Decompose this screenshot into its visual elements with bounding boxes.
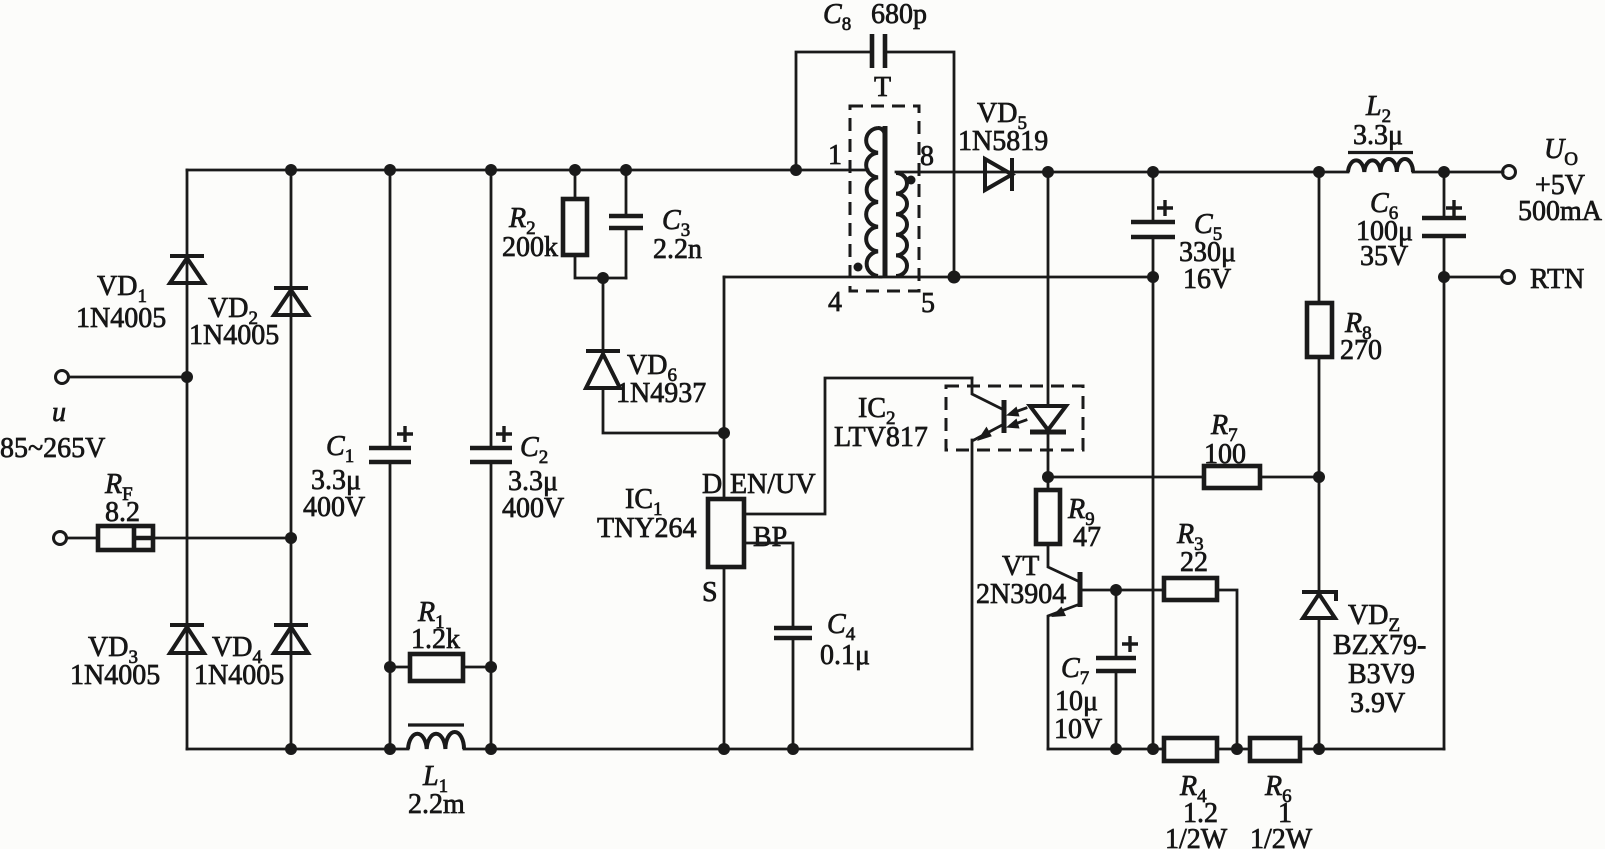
- wire VD2/VD4 column: [290, 170, 293, 749]
- svg-text:270: 270: [1340, 335, 1382, 366]
- wire primary bottom rail right of L1: [464, 748, 972, 751]
- wire IC1 BP lead: [744, 543, 793, 628]
- optocoupler light arrow upper: [1006, 407, 1026, 417]
- wire VDZ top lead: [1318, 477, 1321, 592]
- svg-text:VT: VT: [1002, 551, 1039, 582]
- wire C3 bottom lead: [625, 228, 628, 278]
- transformer T dashed outline: [850, 106, 919, 291]
- node VD5 out / LED branch: [1042, 166, 1054, 178]
- capacitor C4: [774, 628, 812, 638]
- wire VT base lead: [1082, 589, 1164, 592]
- node top rail C5: [1147, 166, 1159, 178]
- wire C7 bottom lead: [1115, 671, 1118, 749]
- wire C8 left branch: [796, 52, 872, 170]
- svg-text:RTN: RTN: [1530, 264, 1584, 295]
- transistor VT emitter: [1048, 604, 1080, 749]
- node top rail C2: [485, 164, 497, 176]
- svg-text:T: T: [874, 72, 891, 103]
- svg-text:2N3904: 2N3904: [976, 579, 1066, 610]
- wire R1 left lead: [390, 666, 410, 669]
- svg-text:1N4005: 1N4005: [70, 660, 160, 691]
- node bottom rail C7: [1110, 743, 1122, 755]
- resistor R3: [1164, 578, 1217, 600]
- transistor VT emitter arrow: [1051, 607, 1066, 618]
- svg-text:8: 8: [920, 141, 934, 172]
- svg-text:85~265V: 85~265V: [0, 433, 105, 464]
- wire optocoupler emitter: [974, 424, 1004, 440]
- wire R3 right to bottom rail: [1217, 590, 1237, 749]
- svg-text:16V: 16V: [1183, 264, 1231, 295]
- wire optocoupler collector: [972, 378, 1004, 410]
- svg-text:1N4005: 1N4005: [194, 660, 284, 691]
- svg-text:1.2k: 1.2k: [411, 624, 460, 655]
- svg-text:2.2m: 2.2m: [408, 789, 465, 820]
- node bottom rail C5: [1147, 743, 1159, 755]
- resistor RF fusible: [98, 526, 153, 550]
- svg-text:100: 100: [1204, 439, 1246, 470]
- svg-text:400V: 400V: [303, 492, 365, 523]
- wire IC1 EN/UV to optocoupler: [744, 378, 972, 514]
- optocoupler phototransistor bar: [1002, 400, 1007, 433]
- wire primary top rail: [187, 169, 868, 172]
- terminal AC input bottom: [54, 532, 67, 545]
- svg-text:D: D: [702, 469, 722, 500]
- node bottom rail IC1 S: [718, 743, 730, 755]
- wire R7 right lead: [1260, 476, 1319, 479]
- svg-text:1/2W: 1/2W: [1250, 824, 1313, 849]
- svg-text:BZX79-: BZX79-: [1333, 630, 1426, 661]
- capacitor C8: [872, 34, 885, 68]
- wire VD6 top lead: [602, 278, 605, 352]
- capacitor C5: [1131, 200, 1175, 237]
- node RF junction: [285, 532, 297, 544]
- wire optocoupler LED cathode: [1047, 432, 1050, 490]
- op-amp IC1 TNY264 body: [708, 499, 744, 567]
- wire VDZ bottom lead: [1318, 618, 1321, 749]
- wire R9 to VT collector: [1048, 544, 1078, 581]
- inductor L2: [1348, 153, 1413, 173]
- svg-text:3.9V: 3.9V: [1350, 688, 1405, 719]
- node pin5 rail C5: [1147, 271, 1159, 283]
- wire R8 bottom lead: [1318, 357, 1321, 477]
- svg-text:LTV817: LTV817: [834, 422, 928, 453]
- node bottom rail C4: [787, 743, 799, 755]
- diode VD3: [170, 625, 204, 653]
- wire C3 column top: [625, 170, 628, 216]
- svg-text:47: 47: [1073, 522, 1101, 553]
- wire IC1 S lead: [723, 567, 726, 749]
- transformer secondary phase dot: [907, 176, 916, 185]
- terminal RTN: [1502, 271, 1515, 284]
- svg-text:1N5819: 1N5819: [958, 126, 1048, 157]
- svg-text:8.2: 8.2: [105, 497, 140, 528]
- wire top rail L2 to output: [1413, 171, 1503, 174]
- node pin5 rail C6 RTN: [1438, 271, 1450, 283]
- transformer primary phase dot: [854, 263, 863, 272]
- wire primary bottom rail left of L1: [187, 748, 408, 751]
- wire C5 column top: [1152, 172, 1155, 222]
- wire C5 column down to ground rail: [1152, 237, 1155, 749]
- capacitor C3: [609, 216, 643, 228]
- wire drain column transformer pin4 to IC1 D: [723, 277, 726, 499]
- wire secondary top rail: [896, 171, 1348, 174]
- svg-text:22: 22: [1180, 547, 1208, 578]
- svg-text:5: 5: [921, 288, 935, 319]
- resistor R9: [1036, 490, 1060, 544]
- wire bottom rail R6 to C6: [1300, 748, 1444, 751]
- node C8 secondary junction: [948, 271, 961, 284]
- svg-text:S: S: [702, 577, 718, 608]
- svg-text:0.1μ: 0.1μ: [820, 640, 870, 671]
- node top rail C3: [620, 164, 632, 176]
- node bottom rail R3 branch: [1231, 743, 1243, 755]
- svg-text:TNY264: TNY264: [597, 513, 697, 544]
- svg-text:10V: 10V: [1054, 714, 1102, 745]
- wire C4 bottom lead: [792, 638, 795, 749]
- svg-text:1/2W: 1/2W: [1165, 824, 1228, 849]
- node R1 right: [485, 661, 497, 673]
- transistor VT base bar: [1078, 572, 1083, 607]
- transformer secondary winding: [896, 173, 907, 276]
- wire C8 right branch: [885, 52, 954, 277]
- svg-text:3.3μ: 3.3μ: [1353, 120, 1403, 151]
- terminal UO output: [1503, 166, 1516, 179]
- svg-text:1: 1: [828, 140, 842, 171]
- resistor R2: [563, 199, 587, 255]
- svg-text:10μ: 10μ: [1055, 686, 1098, 717]
- transformer core: [883, 126, 888, 276]
- wire C2 column top: [490, 170, 493, 448]
- diode VD6: [586, 351, 620, 388]
- capacitor C6: [1422, 200, 1466, 236]
- node top rail L2 R8: [1313, 166, 1325, 178]
- wire transformer pin 4 lead: [724, 276, 881, 279]
- node R7 R8 VDZ junction: [1313, 471, 1325, 483]
- svg-text:4: 4: [828, 287, 842, 318]
- wire bottom rail R4 to R6: [1217, 748, 1250, 751]
- diode VD5: [985, 158, 1012, 191]
- wire C7 top lead: [1115, 590, 1118, 658]
- terminal AC input top: [56, 371, 69, 384]
- node top rail C1: [384, 164, 396, 176]
- node R1 left: [384, 661, 396, 673]
- svg-text:400V: 400V: [502, 493, 564, 524]
- diode VD1: [170, 256, 204, 283]
- wire RTN lead: [1444, 276, 1502, 279]
- capacitor C7: [1096, 636, 1138, 671]
- resistor R8: [1307, 303, 1332, 357]
- wire RF to bridge: [153, 537, 291, 540]
- resistor R7: [1204, 466, 1260, 488]
- wire C6 column top: [1443, 172, 1446, 218]
- wire AC input bottom lead: [67, 537, 99, 540]
- zener diode VDZ: [1302, 592, 1336, 618]
- wire C2 column bottom: [490, 462, 493, 749]
- wire R8 top lead: [1318, 172, 1321, 303]
- optocoupler light arrow lower: [1006, 419, 1026, 429]
- resistor R6: [1250, 738, 1300, 761]
- node AC input top junction: [181, 371, 193, 383]
- svg-text:EN/UV: EN/UV: [730, 469, 816, 500]
- wire R1 right lead: [463, 666, 491, 669]
- wire C6 column down to bottom rail: [1443, 236, 1446, 749]
- node top rail VD2: [285, 164, 297, 176]
- node top rail R2: [569, 164, 581, 176]
- resistor R1: [410, 654, 463, 681]
- wire optocoupler emitter to primary ground: [971, 440, 974, 749]
- wire secondary bottom rail left: [1048, 748, 1164, 751]
- node VD6 drain junction: [718, 427, 730, 439]
- capacitor C2: [470, 426, 512, 462]
- node top rail C6: [1438, 166, 1450, 178]
- svg-text:500mA: 500mA: [1518, 196, 1603, 227]
- svg-text:680p: 680p: [871, 0, 927, 30]
- node bottom rail VD4: [285, 743, 297, 755]
- optocoupler emitter arrow: [977, 427, 992, 441]
- wire AC input top lead: [69, 376, 188, 379]
- wire VD6 bottom lead: [603, 388, 724, 433]
- capacitor C1: [369, 426, 413, 462]
- wire transformer pin 5 rail: [880, 276, 1153, 279]
- LED of IC2: [1030, 406, 1066, 432]
- wire R2 bottom lead: [575, 255, 626, 278]
- svg-text:1N4005: 1N4005: [189, 320, 279, 351]
- node bottom rail VDZ: [1313, 743, 1325, 755]
- svg-text:BP: BP: [753, 522, 787, 553]
- wire left bridge column: [186, 170, 189, 749]
- node R2 C3 VD6 junction: [597, 272, 609, 284]
- wire C1 column top: [389, 170, 392, 448]
- wire R7 left lead: [1048, 476, 1204, 479]
- inductor L1: [408, 725, 464, 749]
- node top rail C8: [790, 164, 802, 176]
- node bottom rail C2: [485, 743, 497, 755]
- transformer primary winding: [866, 128, 878, 276]
- transformer primary top hook: [878, 128, 885, 134]
- optocoupler IC2 dashed outline: [946, 386, 1083, 450]
- svg-text:u: u: [52, 397, 66, 428]
- wire R2 top lead: [574, 170, 577, 199]
- svg-text:2.2n: 2.2n: [653, 234, 702, 265]
- resistor R4: [1164, 738, 1217, 761]
- wire C1 column bottom: [389, 462, 392, 749]
- svg-text:1N4005: 1N4005: [76, 303, 166, 334]
- svg-text:200k: 200k: [502, 232, 558, 263]
- diode VD2: [274, 288, 308, 315]
- wire optocoupler LED anode: [1047, 172, 1050, 406]
- node bottom rail C1: [384, 743, 396, 755]
- svg-text:1N4937: 1N4937: [616, 378, 706, 409]
- diode VD4: [274, 625, 308, 653]
- node base C7 junction: [1110, 584, 1122, 596]
- node LED cathode R9 R7 junction: [1042, 471, 1054, 483]
- svg-text:35V: 35V: [1360, 241, 1408, 272]
- svg-text:B3V9: B3V9: [1348, 659, 1415, 690]
